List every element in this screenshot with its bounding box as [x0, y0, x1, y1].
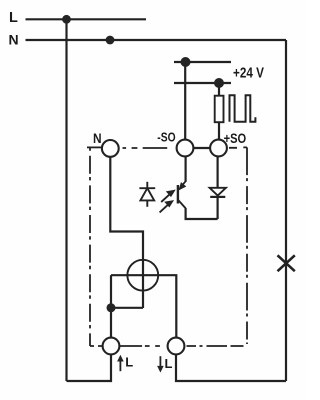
- terminal N: [102, 140, 119, 157]
- +24V lower bus: [174, 82, 231, 84]
- phototransistor T1 base bar: [177, 185, 179, 204]
- wire N bus: [26, 39, 287, 41]
- pulse waveform symbol: [230, 95, 256, 121]
- +24V upper bus: [174, 61, 231, 63]
- junction dot on L bus: [62, 15, 71, 24]
- wire +SO terminal down to diode D2: [217, 156, 219, 187]
- wire left branch: corner to L-in terminal: [110, 275, 112, 338]
- junction dot on +24V lower bus: [214, 78, 224, 88]
- terminal L-out (bottom right): [168, 338, 185, 355]
- svg-text:-SO: -SO: [157, 129, 175, 144]
- lamp X symbol on riser: [278, 255, 295, 271]
- junction dot on N bus: [106, 36, 115, 45]
- terminal L-in (bottom left): [103, 338, 120, 355]
- dash-dot enclosure bottom: right corner to L-out: [187, 345, 244, 347]
- dash-dot enclosure top-left stub: [87, 146, 102, 148]
- wire +24V lower to resistor: [218, 83, 220, 96]
- wire lamp horizontal to right drop: [111, 275, 176, 338]
- wire bottom left to terminal L-in: [67, 354, 112, 381]
- terminal -SO: [177, 140, 194, 157]
- resistor R1: [215, 96, 224, 123]
- diode D2: [210, 188, 226, 197]
- junction dot on +24V upper bus: [181, 57, 191, 67]
- phototransistor collector arrowhead: [179, 183, 185, 189]
- svg-text:L: L: [9, 10, 18, 26]
- wire bottom right to terminal L-out: [176, 354, 286, 381]
- wire N terminal down and over to lamp: [110, 157, 143, 308]
- light arrow 1 into phototransistor: [161, 194, 169, 202]
- junction dot at lamp return: [107, 303, 116, 312]
- wire L bus: [26, 18, 147, 20]
- dash-dot enclosure left edge: [89, 147, 91, 346]
- svg-text:N: N: [93, 130, 102, 146]
- dash-dot enclosure bottom: between terminals: [118, 345, 160, 347]
- wire resistor to +SO terminal: [218, 122, 220, 140]
- diode D1 (left, floating): [139, 182, 155, 207]
- wire right riser from N bus corner down: [285, 40, 287, 381]
- svg-text:N: N: [9, 31, 19, 47]
- wire diode D2 to bottom rail: [217, 197, 219, 219]
- wire -SO terminal down to phototransistor: [185, 156, 187, 181]
- arrow up at L-in: [119, 359, 121, 372]
- phototransistor collector arm: [182, 181, 186, 186]
- wire phototransistor emitter down and bottom rail: [186, 208, 218, 219]
- dash-dot enclosure bottom-left stub: [90, 345, 103, 347]
- dash-dot enclosure top: +SO to right corner: [229, 146, 247, 148]
- lamp / dimmer circle: [127, 260, 158, 291]
- terminal +SO: [210, 140, 227, 157]
- svg-text:L: L: [125, 355, 133, 370]
- light arrow 2 into phototransistor: [160, 205, 168, 213]
- svg-text:L: L: [165, 356, 173, 371]
- svg-text:+24 V: +24 V: [233, 64, 264, 81]
- wire left riser from L bus to bottom: [65, 19, 67, 381]
- wire +24V to -SO terminal: [184, 62, 186, 140]
- wire junction to lamp bottom: [111, 307, 143, 309]
- svg-text:+SO: +SO: [224, 131, 247, 146]
- arrow down at L-out: [159, 356, 161, 369]
- dash-dot enclosure right edge: [246, 147, 248, 344]
- dash-dot enclosure top: N to -SO: [123, 147, 168, 149]
- wire link -SO to +SO: [193, 147, 210, 149]
- phototransistor emitter arm: [178, 200, 185, 208]
